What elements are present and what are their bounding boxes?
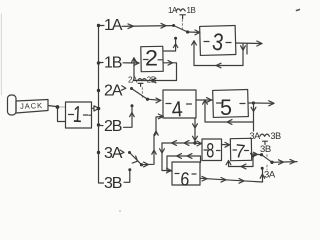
svg-text:4: 4 — [171, 96, 184, 122]
svg-text:8: 8 — [206, 140, 214, 163]
svg-text:1A: 1A — [104, 17, 123, 34]
svg-text:1B: 1B — [104, 55, 122, 72]
svg-text:1A: 1A — [168, 6, 178, 15]
svg-text:2B: 2B — [147, 75, 156, 84]
svg-text:7: 7 — [234, 141, 246, 163]
svg-text:2: 2 — [145, 46, 158, 71]
svg-text:1: 1 — [72, 101, 82, 127]
svg-text:1B: 1B — [187, 6, 196, 15]
svg-text:3: 3 — [211, 29, 226, 57]
svg-text:2A: 2A — [128, 75, 138, 84]
svg-text:3A: 3A — [250, 131, 261, 141]
svg-text:JACK: JACK — [20, 101, 43, 111]
svg-text:3B: 3B — [104, 175, 122, 192]
svg-text:3B: 3B — [260, 144, 271, 155]
svg-text:2B: 2B — [104, 118, 122, 135]
svg-text:5: 5 — [220, 95, 232, 120]
svg-text:3A: 3A — [264, 170, 276, 181]
svg-text:3A: 3A — [104, 145, 123, 162]
svg-text:2A: 2A — [104, 83, 123, 100]
svg-text:3B: 3B — [271, 131, 282, 141]
svg-text:6: 6 — [180, 169, 190, 191]
